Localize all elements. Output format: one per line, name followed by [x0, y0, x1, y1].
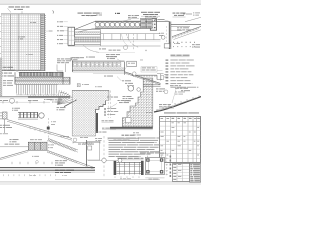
left thin hatched strip	[0, 58, 2, 97]
grid inner labels	[18, 22, 36, 55]
dark rows on band	[55, 170, 74, 173]
small corner detail right	[140, 50, 168, 81]
curve from column	[83, 45, 99, 53]
tick mark right mid	[171, 42, 181, 47]
legend title	[171, 55, 190, 57]
dark corner patch	[52, 72, 63, 76]
hollow block band	[72, 60, 126, 74]
column section	[68, 27, 75, 45]
stacked dim label	[141, 67, 163, 72]
grid title label	[8, 7, 30, 14]
upper slope dense band	[47, 138, 78, 152]
barrier detail	[114, 161, 144, 179]
ramp diagonals	[7, 120, 72, 141]
white box at floor	[126, 118, 132, 123]
hanging vertical bars	[16, 84, 58, 96]
mid tick row	[12, 161, 52, 165]
detail balloons	[128, 86, 134, 92]
small labels near x95	[95, 138, 102, 141]
left slope lines	[0, 150, 28, 160]
dash column	[170, 156, 172, 178]
left small labels column	[57, 21, 68, 44]
marks near wall	[159, 26, 167, 46]
wall footing	[164, 44, 169, 48]
extra left label rows	[3, 80, 13, 85]
label above posts	[12, 108, 20, 111]
labels above slab band	[88, 13, 158, 21]
small schedule blocks	[141, 18, 153, 28]
top corner diagonal	[185, 17, 201, 21]
dark corner text block	[190, 164, 201, 183]
grid left dim ticks	[0, 16, 1, 69]
lower wall edge line	[132, 72, 162, 80]
sub ticks	[4, 174, 68, 176]
labels mid under slab	[71, 49, 121, 61]
bottom-left small marks	[0, 132, 8, 135]
tick line y102	[0, 101, 50, 103]
big notes block	[109, 135, 160, 157]
dashed vertical with block	[47, 118, 56, 138]
left section labels	[0, 139, 28, 147]
rebar fan	[58, 90, 77, 107]
main table	[160, 117, 201, 163]
right slope lines with ticks	[47, 150, 95, 169]
right edge labels	[192, 44, 200, 47]
grid right dense band	[41, 14, 46, 71]
barrier detail title	[118, 158, 144, 160]
pump symbol	[77, 84, 89, 87]
dim line under floor	[108, 137, 139, 140]
plan outline verticals	[15, 72, 70, 84]
wall cap lines	[143, 85, 161, 87]
top-middle title	[78, 13, 102, 16]
long thin line y46	[68, 45, 161, 47]
main table title	[164, 112, 176, 115]
page top edge band	[0, 0, 201, 4]
diagonal beam with ticks	[124, 72, 160, 85]
small detail lines x57-66	[57, 59, 72, 73]
lines under slab band	[101, 34, 161, 41]
sloped ground line	[154, 96, 201, 113]
labels above block band	[72, 56, 121, 61]
slope labels	[32, 136, 88, 157]
left circle balloon	[10, 98, 15, 103]
tiny rows left of hatch base	[133, 132, 141, 135]
white box label right of band	[127, 61, 137, 66]
cutout step outline	[96, 101, 106, 114]
right earth hatch column	[122, 78, 153, 127]
long thin bottom line	[55, 179, 160, 181]
legend rows	[166, 60, 199, 88]
floor slab dark line	[110, 127, 153, 130]
dim line under left hatch	[73, 141, 100, 144]
channel dashed lines	[108, 91, 110, 119]
embankment hatch band	[172, 26, 201, 39]
dots rows right	[173, 42, 195, 47]
wall stem in hatch	[96, 113, 98, 133]
hatched wall band 2	[15, 77, 70, 80]
horizontal ground lines under plan	[0, 95, 70, 97]
hollow core slab band	[95, 21, 153, 28]
small plan with corner plates	[140, 153, 168, 180]
dashed vertical with circle	[102, 136, 106, 178]
hatched wall band 1	[20, 72, 64, 76]
crest hatched box	[28, 139, 47, 150]
leader with circle	[88, 158, 122, 162]
grid plan view	[1, 14, 44, 71]
left small rows mid page	[0, 125, 12, 128]
tiny dash right of grid	[49, 30, 53, 33]
retaining wall	[169, 22, 171, 50]
hatched wall band 3	[15, 81, 70, 84]
bottom table	[173, 164, 190, 182]
slab layers	[75, 30, 102, 47]
cluster labels left of column	[123, 96, 134, 101]
wedge labels	[177, 14, 192, 31]
text rows right of slope	[55, 160, 67, 165]
transition diagonals	[75, 21, 96, 32]
ground annotations	[146, 85, 190, 113]
channel labels	[95, 86, 130, 122]
ramp ticks	[30, 126, 50, 135]
slab end block	[150, 19, 156, 31]
approach slab line	[145, 20, 169, 22]
left earth hatch zone	[72, 90, 109, 136]
labels under cutout	[96, 128, 117, 133]
posts detail (guardrail)	[18, 112, 38, 119]
wall right slab lines	[171, 24, 201, 30]
labels under band	[93, 74, 134, 87]
tiny mark j	[52, 11, 55, 14]
top-right titles	[141, 12, 200, 17]
ground band lines	[0, 168, 95, 173]
small label rows under plan	[0, 99, 62, 102]
labels right of column	[156, 89, 167, 92]
fan labels	[57, 107, 66, 110]
wall element near x87	[82, 140, 100, 166]
left hatched post	[0, 112, 7, 133]
schedule label leader	[155, 19, 170, 21]
left labels block	[0, 67, 19, 77]
dashed curve detail	[127, 34, 139, 47]
posts balloon	[38, 113, 44, 118]
page bottom edge band	[0, 181, 201, 183]
